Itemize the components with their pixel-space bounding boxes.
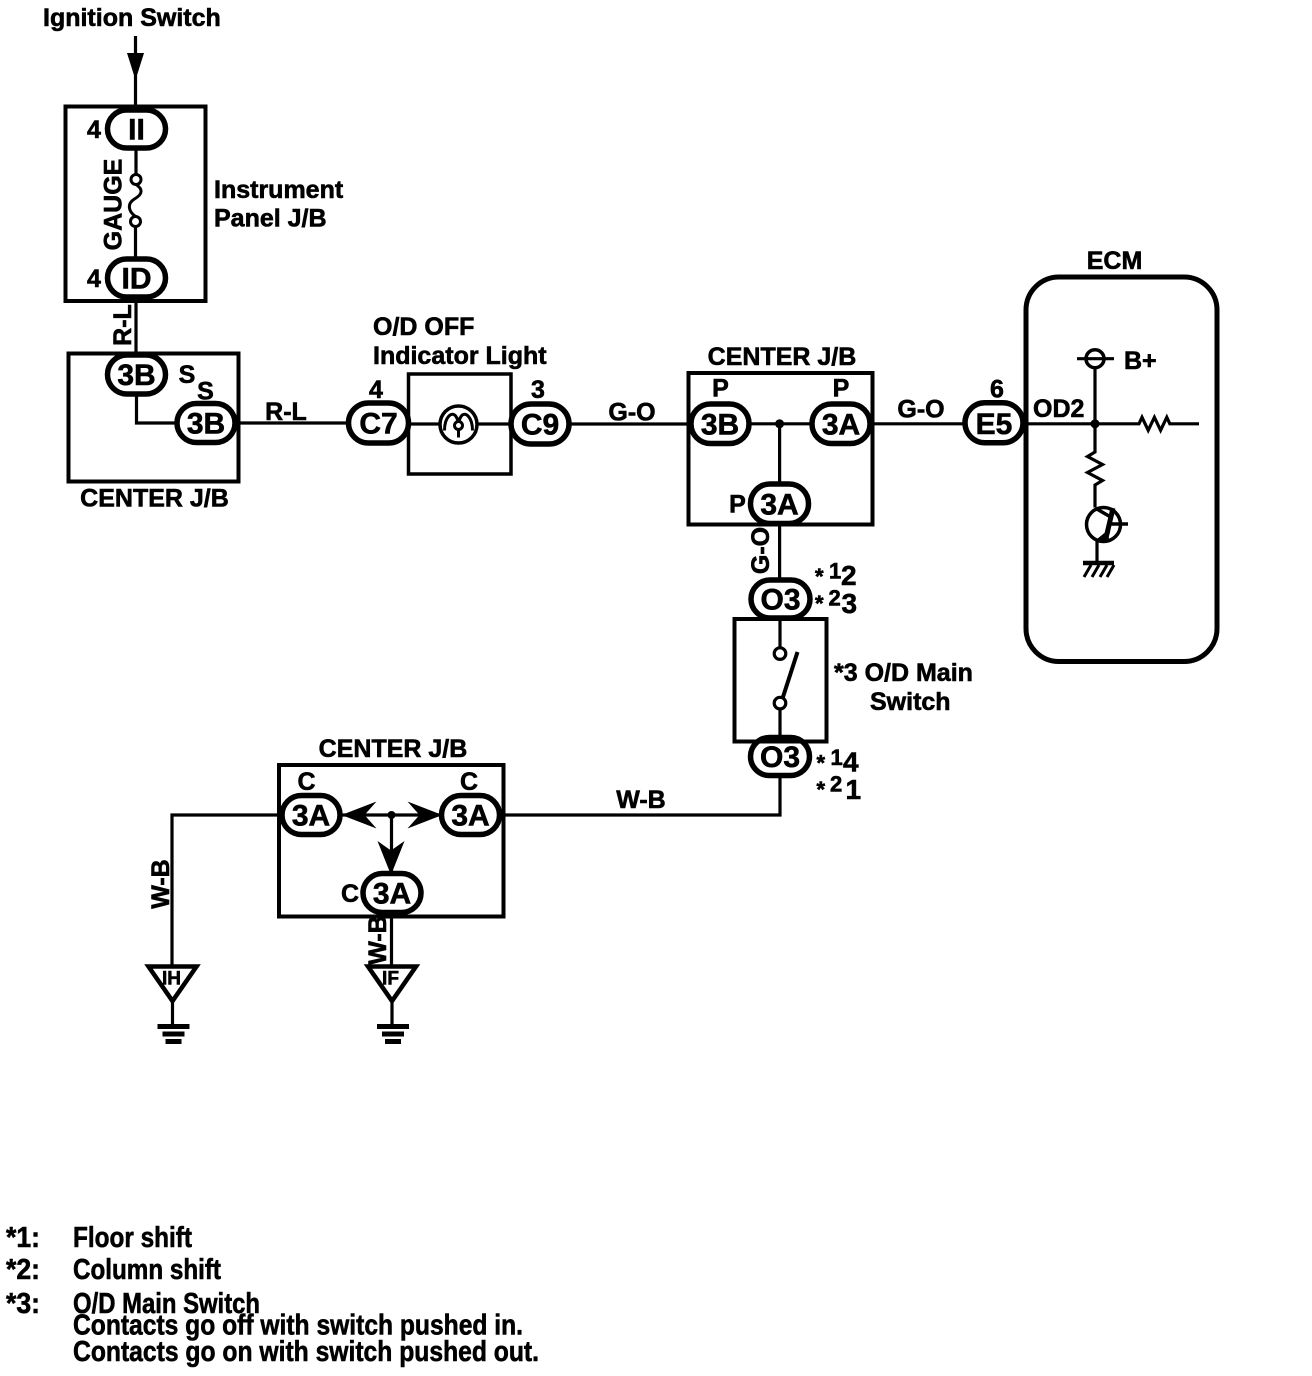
O/D main switch box [735, 619, 827, 742]
wire emitter to ground [1095, 541, 1098, 563]
svg-text:E5: E5 [976, 408, 1013, 441]
ground (ECM internal) [1083, 561, 1114, 566]
bus arrow left [342, 802, 377, 829]
resistor (vertical, pull-down) [1088, 424, 1103, 508]
connector O3 (top of O/D main switch) [751, 580, 810, 618]
svg-text:*3:: *3: [6, 1288, 40, 1320]
connector C9 [511, 404, 569, 444]
svg-text:4: 4 [87, 265, 101, 293]
svg-text:1: 1 [846, 774, 862, 805]
svg-text:*3 O/D Main: *3 O/D Main [834, 659, 973, 687]
svg-text:4: 4 [87, 116, 101, 144]
arrowhead down [127, 53, 144, 80]
svg-text:CENTER J/B: CENTER J/B [319, 735, 468, 763]
connector 3A (bottom, middle JB) [751, 484, 809, 524]
wire W-B from bottom 3A to ground IF [390, 913, 393, 967]
svg-text:CENTER J/B: CENTER J/B [80, 485, 229, 513]
junction node [388, 811, 396, 819]
connector 3A (bottom, lower JB) [363, 874, 421, 913]
svg-text:ID: ID [122, 263, 152, 296]
svg-text:O3: O3 [760, 741, 800, 774]
connector II (pin 4) [108, 110, 166, 148]
svg-text:G-O: G-O [608, 399, 655, 427]
resistor (horizontal, to internal circuit) [1095, 417, 1199, 430]
CENTER J/B box (left) [69, 354, 239, 482]
svg-text:G-O: G-O [747, 527, 775, 574]
wire W-B from O3 down and left to lower CENTER J/B [500, 776, 780, 816]
svg-text:*1:: *1: [6, 1222, 40, 1254]
svg-text:R-L: R-L [109, 304, 137, 346]
bus arrow down [378, 841, 405, 875]
connector 3A (left, lower JB) [282, 796, 340, 835]
svg-text:*: * [817, 777, 826, 802]
wire R-L to C7 [235, 421, 349, 424]
svg-text:1: 1 [831, 745, 843, 770]
svg-text:3A: 3A [760, 489, 798, 522]
svg-text:3A: 3A [451, 800, 489, 833]
svg-text:P: P [729, 491, 746, 519]
wire between 3A connectors [340, 813, 442, 816]
wire into lamp [409, 422, 441, 425]
svg-text:2: 2 [830, 772, 842, 797]
svg-text:S: S [179, 361, 196, 389]
CENTER J/B box (middle) [689, 373, 873, 525]
wire down to 3A bottom [778, 424, 781, 484]
connector E5 [965, 403, 1023, 443]
svg-text:3B: 3B [117, 359, 155, 392]
wire G-O from 3A to E5 [870, 422, 965, 425]
svg-text:CENTER J/B: CENTER J/B [708, 343, 857, 371]
svg-text:Floor shift: Floor shift [73, 1222, 192, 1254]
svg-text:Column shift: Column shift [73, 1254, 221, 1286]
fuse GAUGE symbol [134, 148, 137, 175]
wire G-O from C9 to CENTER J/B (middle) [569, 422, 689, 425]
switch wire top [778, 618, 781, 648]
switch contact (top) [774, 648, 786, 660]
Instrument Panel J/B box [66, 107, 206, 302]
connector 3B (right, pin S) [177, 404, 235, 443]
svg-text:3A: 3A [373, 878, 411, 911]
svg-text:3A: 3A [292, 800, 330, 833]
bus arrow right [408, 802, 443, 829]
connector 3A (right, lower JB) [442, 796, 500, 835]
B+ terminal [1077, 357, 1114, 360]
wire G-O from middle JB down to O3 [778, 524, 781, 582]
svg-text:3B: 3B [701, 409, 739, 442]
wire to ground [171, 1001, 174, 1024]
svg-text:OD2: OD2 [1033, 395, 1084, 423]
svg-text:4: 4 [843, 747, 859, 778]
svg-text:6: 6 [990, 376, 1004, 404]
svg-text:3: 3 [842, 588, 858, 619]
transistor Q (output driver) [1087, 508, 1121, 542]
svg-text:*: * [817, 751, 826, 776]
svg-text:C9: C9 [521, 409, 559, 442]
svg-text:C7: C7 [359, 408, 397, 441]
O/D OFF indicator light box [409, 374, 512, 474]
switch contact (bottom) [774, 697, 786, 709]
wire from ignition switch down to Instrument Panel J/B [134, 36, 137, 107]
ground point IF [368, 967, 416, 1002]
svg-text:*: * [815, 591, 824, 616]
svg-text:Ignition Switch: Ignition Switch [43, 4, 221, 32]
connector O3 (bottom of O/D main switch) [751, 738, 810, 776]
connector 3B (middle JB) [691, 404, 749, 444]
lamp bulb [440, 406, 477, 443]
connector C7 [349, 403, 409, 443]
connector ID (pin 4) [108, 259, 166, 297]
svg-text:P: P [833, 375, 850, 403]
svg-text:B+: B+ [1124, 347, 1157, 375]
wire down to bottom 3A [390, 815, 393, 874]
svg-text:C: C [460, 768, 478, 796]
ground point IH [149, 967, 197, 1002]
svg-text:*: * [815, 564, 824, 589]
svg-text:Indicator Light: Indicator Light [373, 342, 547, 370]
svg-text:3B: 3B [187, 408, 225, 441]
ECM box [1026, 277, 1217, 662]
CENTER J/B box (lower) [279, 765, 504, 917]
svg-text:G-O: G-O [897, 396, 944, 424]
wire from B+ down to OD2 node [1093, 368, 1096, 424]
connector 3B (top, pin S) [108, 355, 166, 394]
svg-text:W-B: W-B [147, 859, 175, 908]
svg-text:O/D OFF: O/D OFF [373, 313, 474, 341]
switch wire bottom [778, 709, 781, 742]
svg-text:2: 2 [841, 560, 857, 591]
wire out of lamp [477, 422, 511, 425]
switch blade [783, 652, 798, 699]
svg-text:Contacts go on with switch pus: Contacts go on with switch pushed out. [73, 1336, 539, 1368]
wire from E5 into ECM (OD2) [1023, 422, 1095, 425]
svg-text:IF: IF [382, 969, 399, 990]
junction node OD2 [1091, 419, 1100, 428]
wire inside left CENTER J/B [137, 394, 178, 423]
svg-text:1: 1 [829, 559, 841, 584]
svg-text:O3: O3 [760, 584, 800, 617]
svg-text:Panel J/B: Panel J/B [214, 205, 327, 233]
ground symbol (IH) [158, 1024, 190, 1029]
wire 3B to 3A inside middle JB [749, 422, 812, 425]
svg-text:*2:: *2: [6, 1254, 40, 1286]
svg-text:C: C [341, 880, 359, 908]
svg-text:2: 2 [829, 586, 841, 611]
svg-text:Instrument: Instrument [214, 176, 344, 204]
svg-text:C: C [297, 768, 315, 796]
svg-text:3: 3 [531, 376, 545, 404]
wire R-L from ID to CENTER J/B [134, 297, 137, 355]
svg-text:P: P [712, 375, 729, 403]
wire W-B from left 3A to ground IH [172, 815, 282, 966]
wire to ground [390, 1001, 393, 1024]
svg-text:R-L: R-L [265, 398, 307, 426]
ground symbol (IF) [377, 1024, 409, 1029]
svg-text:ECM: ECM [1087, 247, 1143, 275]
svg-text:W-B: W-B [616, 786, 665, 814]
svg-text:II: II [128, 114, 145, 147]
svg-text:W-B: W-B [364, 915, 392, 964]
connector 3A (right, middle JB) [812, 404, 870, 444]
svg-text:3A: 3A [822, 409, 860, 442]
svg-text:4: 4 [369, 376, 383, 404]
junction node [775, 419, 784, 428]
svg-text:IH: IH [162, 969, 181, 990]
svg-text:GAUGE: GAUGE [100, 159, 128, 251]
svg-text:Switch: Switch [870, 688, 951, 716]
